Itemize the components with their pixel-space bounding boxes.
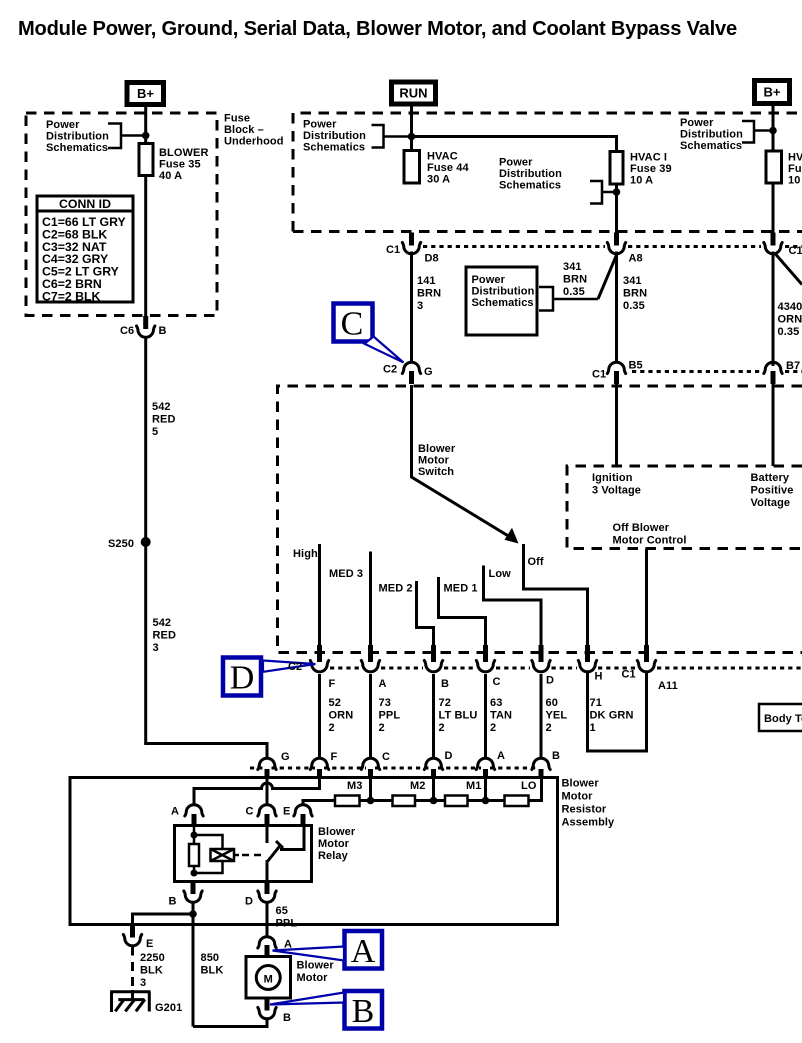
svg-text:BLOWER: BLOWER [159, 147, 208, 159]
svg-text:BRN: BRN [623, 288, 647, 300]
connector pin E (ground branch) [123, 926, 141, 946]
svg-text:B: B [169, 896, 177, 908]
svg-text:Fuse: Fuse [224, 113, 250, 125]
fuse HVAC right 10A [766, 151, 782, 233]
connector pin H (switch row) [578, 645, 596, 672]
svg-text:M1: M1 [466, 780, 481, 792]
CONN ID table [37, 196, 133, 303]
relay connector dome A [185, 805, 203, 826]
svg-text:B: B [283, 1012, 291, 1024]
svg-text:C1: C1 [789, 245, 802, 257]
label Power Distribution Schematics 3 [499, 157, 562, 192]
svg-text:Distribution: Distribution [472, 286, 535, 298]
bracket 3 [590, 181, 617, 204]
svg-text:MED 3: MED 3 [329, 568, 363, 580]
module dotted line row2 [632, 370, 802, 373]
svg-text:C2: C2 [383, 364, 397, 376]
svg-text:F: F [331, 751, 338, 763]
svg-text:E: E [146, 938, 153, 950]
label Blower Motor Switch [418, 443, 456, 478]
wire 850 BLK bottom [193, 1020, 267, 1027]
bracket 4 [742, 121, 773, 143]
wire B+ left to fuse [144, 107, 147, 144]
resistor M1 [445, 796, 468, 807]
motor M circle [256, 966, 280, 990]
svg-text:Power: Power [499, 157, 533, 169]
wire D stub to chain [432, 778, 435, 801]
svg-text:B: B [552, 750, 560, 762]
label HVAC I Fuse 39 10 A [630, 152, 672, 187]
wire B+ right down [772, 104, 775, 152]
svg-text:TAN: TAN [490, 710, 512, 722]
svg-text:ORN: ORN [778, 314, 802, 326]
label Blower Motor Resistor Assembly [562, 778, 616, 829]
label 72 LT BLU 2 [439, 697, 478, 734]
wire 72 LT BLU 2 [432, 674, 435, 758]
svg-text:A: A [351, 933, 376, 970]
svg-text:Blower: Blower [418, 443, 456, 455]
svg-text:Fuse: Fuse [788, 163, 802, 175]
svg-text:Relay: Relay [318, 850, 349, 862]
connector pin D (switch row) [532, 645, 550, 672]
svg-text:3: 3 [153, 642, 159, 654]
svg-text:71: 71 [590, 697, 602, 709]
svg-text:B+: B+ [764, 85, 781, 100]
svg-text:C: C [493, 676, 501, 688]
svg-text:10 A: 10 A [630, 175, 653, 187]
wire 71 DK GRN 1 (U path H to A11) [588, 673, 647, 751]
wire High [318, 544, 321, 645]
wire branch to ground E [133, 914, 194, 926]
fuse block underhood dashed box (left) [26, 113, 217, 316]
wire MED 3 [369, 552, 372, 646]
label 341 BRN 0.35 (second) [623, 275, 647, 312]
svg-text:2: 2 [490, 722, 496, 734]
connector C1 (right column) [764, 233, 782, 254]
svg-text:Distribution: Distribution [499, 168, 562, 180]
svg-text:Body To: Body To [764, 713, 802, 725]
label Off Blower Motor Control [613, 522, 687, 547]
junction dot chain D [430, 797, 438, 805]
svg-text:4340: 4340 [778, 301, 802, 313]
svg-text:Battery: Battery [751, 472, 790, 484]
wire relay D to motor A [266, 904, 269, 937]
svg-text:Schematics: Schematics [680, 140, 742, 152]
svg-text:C7=2 BLK: C7=2 BLK [42, 289, 101, 303]
connector pin D (resistor row) [424, 758, 442, 779]
wire B5 to control box [615, 383, 618, 466]
relay coil (box with X) [211, 849, 240, 861]
svg-text:Block –: Block – [224, 124, 264, 136]
label HVAC Fuse 44 30 A [427, 151, 469, 186]
svg-text:30 A: 30 A [427, 174, 450, 186]
svg-text:2: 2 [379, 722, 385, 734]
connector C2 pin F (switch row) [310, 645, 328, 672]
svg-text:Blower: Blower [562, 778, 600, 790]
junction dot relay B branch [189, 910, 197, 918]
fuse HVAC I Fuse 39 10A [610, 151, 623, 233]
wire E to resistor chain [303, 801, 336, 805]
svg-text:Motor: Motor [418, 455, 450, 467]
svg-text:Fuse 44: Fuse 44 [427, 162, 469, 174]
wire MED 2 [417, 581, 434, 645]
svg-text:C: C [246, 806, 254, 818]
wire 542 RED 5 [144, 339, 147, 744]
bracket 5 on PDS box [539, 287, 598, 311]
power symbol B+ (right) [755, 81, 790, 104]
svg-text:5: 5 [152, 426, 158, 438]
ground G201 [110, 990, 150, 1012]
fuse BLOWER Fuse 35 40A [139, 144, 153, 176]
svg-text:YEL: YEL [546, 710, 568, 722]
label Fuse Block - Underhood [224, 113, 284, 148]
svg-text:Off Blower: Off Blower [613, 522, 670, 534]
wire MED 1 [439, 577, 486, 645]
relay switch fixed contact [266, 826, 269, 844]
junction dot 3 [613, 188, 621, 196]
wire 52 ORN 2 [318, 674, 321, 758]
svg-text:M3: M3 [347, 780, 362, 792]
wire diagonal to A8 [598, 255, 617, 299]
svg-text:A11: A11 [658, 680, 678, 692]
svg-text:341: 341 [623, 275, 642, 287]
svg-text:BRN: BRN [417, 288, 441, 300]
blower motor relay box [175, 826, 312, 882]
svg-text:High: High [293, 548, 318, 560]
svg-text:DK GRN: DK GRN [590, 710, 634, 722]
junction dot 4 [769, 127, 777, 135]
connector pin A (resistor row) [476, 758, 494, 779]
box Power Distribution Schematics (solid) [466, 267, 537, 335]
label Power Distribution Schematics 1 [46, 119, 109, 154]
svg-text:D: D [445, 750, 453, 762]
relay connector dome C [258, 805, 276, 826]
svg-text:BLK: BLK [201, 965, 224, 977]
wire F to relay A (with hop) [194, 778, 320, 805]
resistor chain wire [337, 778, 542, 801]
svg-text:D: D [546, 675, 554, 687]
svg-text:BLK: BLK [140, 965, 163, 977]
relay switch common down [266, 860, 269, 882]
wire 60 YEL 2 [540, 674, 543, 758]
svg-text:Power: Power [303, 119, 337, 131]
svg-text:2: 2 [329, 722, 335, 734]
svg-text:Power: Power [680, 117, 714, 129]
svg-text:RED: RED [152, 414, 176, 426]
svg-text:Blower: Blower [318, 826, 356, 838]
callout box D [223, 658, 261, 697]
resistor row dotted line [250, 767, 537, 770]
label 850 BLK [201, 952, 224, 977]
label HVAC right fuse (clipped at edge) [788, 152, 802, 187]
svg-text:MED 1: MED 1 [444, 583, 478, 595]
connector pin F (resistor row) [310, 758, 328, 779]
svg-text:Fuse 35: Fuse 35 [159, 159, 201, 171]
label 2250 BLK 3 [140, 952, 165, 989]
svg-text:D: D [245, 896, 253, 908]
wire G to relay C [266, 778, 269, 805]
svg-text:B: B [352, 993, 375, 1030]
arrowhead switch [505, 528, 519, 544]
connector pin B7 [764, 362, 782, 384]
svg-text:Power: Power [46, 119, 80, 131]
svg-text:M2: M2 [410, 780, 425, 792]
svg-text:E: E [283, 806, 290, 818]
svg-text:Switch: Switch [418, 466, 454, 478]
callout B pointer [270, 993, 344, 1005]
label 52 ORN 2 [329, 697, 354, 734]
label 60 YEL 2 [546, 697, 568, 734]
svg-text:Blower: Blower [297, 960, 335, 972]
callout A pointer [273, 947, 345, 961]
fuse HVAC Fuse 44 30A [404, 150, 420, 184]
label Power Distribution Schematics 4 [680, 117, 743, 152]
relay switch arm [267, 841, 283, 862]
svg-text:RED: RED [153, 630, 177, 642]
svg-text:Voltage: Voltage [751, 497, 791, 509]
label 63 TAN 2 [490, 697, 512, 734]
power symbol RUN [392, 82, 436, 104]
svg-text:C1: C1 [386, 244, 400, 256]
svg-text:HVAC: HVAC [427, 151, 458, 163]
svg-text:G: G [281, 751, 290, 763]
svg-text:A: A [497, 750, 505, 762]
svg-text:Motor Control: Motor Control [613, 535, 687, 547]
wire C1 right column down [772, 252, 775, 367]
svg-text:Ignition: Ignition [592, 472, 633, 484]
svg-text:CONN ID: CONN ID [59, 197, 111, 211]
connector pin G (resistor row) [258, 758, 276, 779]
label 71 DK GRN 1 [590, 697, 634, 734]
svg-text:M: M [264, 974, 273, 986]
svg-text:HVAC: HVAC [788, 152, 802, 164]
connector pin B (resistor row) [532, 758, 550, 779]
label Power Distribution Schematics 2 [303, 119, 366, 154]
svg-text:Underhood: Underhood [224, 136, 284, 148]
svg-text:BRN: BRN [563, 274, 587, 286]
junction dot 1 [142, 132, 150, 140]
svg-text:0.35: 0.35 [563, 286, 585, 298]
svg-text:B+: B+ [137, 86, 154, 101]
svg-text:341: 341 [563, 261, 582, 273]
blower motor box [246, 957, 291, 999]
svg-text:3: 3 [140, 977, 146, 989]
svg-text:B: B [441, 678, 449, 690]
svg-text:Schematics: Schematics [472, 297, 534, 309]
svg-text:H: H [595, 671, 603, 683]
connector pin C (resistor row) [361, 758, 379, 779]
callout box B [345, 991, 383, 1030]
svg-text:Fuse 39: Fuse 39 [630, 163, 672, 175]
junction dot chain A [482, 797, 490, 805]
svg-text:A8: A8 [629, 253, 643, 265]
svg-text:PPL: PPL [276, 918, 298, 930]
junction dot 2 [408, 133, 416, 141]
bracket 2 [372, 125, 412, 148]
svg-text:C1: C1 [622, 669, 636, 681]
svg-text:A: A [379, 678, 387, 690]
wire control to A11 [645, 549, 648, 646]
label Blower Motor [297, 960, 335, 985]
svg-text:Distribution: Distribution [46, 131, 109, 143]
svg-text:G: G [424, 366, 433, 378]
svg-text:52: 52 [329, 697, 341, 709]
wire switch feed [412, 385, 513, 539]
svg-text:0.35: 0.35 [623, 300, 645, 312]
svg-text:Motor: Motor [318, 838, 350, 850]
relay coil branch wire [194, 826, 223, 874]
svg-text:40 A: 40 A [159, 170, 182, 182]
label 73 PPL 2 [379, 697, 401, 734]
wire fuse35 to C6 [144, 176, 147, 318]
connector pin A (switch row) [361, 645, 379, 672]
label Blower Motor Relay [318, 826, 356, 862]
junction dot relay bottom [191, 870, 198, 877]
svg-text:Distribution: Distribution [680, 129, 743, 141]
svg-text:10 A: 10 A [788, 175, 802, 187]
svg-text:542: 542 [152, 401, 171, 413]
label 542 RED 3 [153, 617, 177, 654]
label BLOWER Fuse 35 40 A [159, 147, 208, 182]
svg-text:2: 2 [546, 722, 552, 734]
svg-text:2250: 2250 [140, 952, 165, 964]
resistor M2 [393, 796, 416, 807]
splice S250 [141, 537, 151, 547]
callout D pointer [263, 661, 316, 672]
svg-text:RUN: RUN [399, 86, 427, 101]
connector C1 pin A11 [637, 645, 655, 672]
wire Off [524, 544, 588, 645]
resistor LO [505, 796, 529, 807]
label 65 PPL [276, 905, 298, 930]
svg-text:LT BLU: LT BLU [439, 710, 478, 722]
svg-text:ORN: ORN [329, 710, 354, 722]
bracket 1 [108, 124, 146, 149]
wire 63 TAN 2 [484, 674, 487, 758]
label 542 RED 5 [152, 401, 176, 438]
svg-text:HVAC I: HVAC I [630, 152, 667, 164]
junction dot relay top [191, 832, 198, 839]
junction dot chain C [367, 797, 375, 805]
svg-text:141: 141 [417, 275, 436, 287]
svg-text:0.35: 0.35 [778, 326, 800, 338]
connector C6 pin B (stub+cup) [137, 316, 155, 337]
svg-text:Distribution: Distribution [303, 130, 366, 142]
svg-text:Off: Off [528, 556, 544, 568]
label Battery Positive Voltage [751, 472, 794, 509]
control dashed box [567, 466, 802, 549]
motor pin B [258, 998, 276, 1019]
box Body To (clipped at edge) [759, 704, 802, 731]
wire RUN down [410, 104, 413, 151]
svg-text:72: 72 [439, 697, 451, 709]
svg-text:MED 2: MED 2 [379, 583, 413, 595]
wire C stub to chain [369, 778, 372, 801]
svg-text:Schematics: Schematics [499, 180, 561, 192]
wire B7 to control box [772, 383, 775, 466]
relay pin D [258, 882, 276, 903]
svg-text:C: C [382, 751, 390, 763]
wire relay B down [192, 904, 195, 1027]
svg-text:850: 850 [201, 952, 220, 964]
svg-text:Resistor: Resistor [562, 804, 607, 816]
connector C1 pin A8 [607, 233, 625, 254]
svg-text:Positive: Positive [751, 485, 794, 497]
svg-text:D: D [230, 660, 255, 697]
fuse block underhood dashed box (right, spans to page edge) [293, 113, 802, 232]
svg-text:542: 542 [153, 617, 172, 629]
svg-text:Module Power, Ground, Serial D: Module Power, Ground, Serial Data, Blowe… [18, 18, 737, 40]
svg-text:1: 1 [590, 722, 596, 734]
svg-text:Low: Low [489, 568, 512, 580]
HVAC module dashed box [278, 386, 802, 653]
relay connector dome E [294, 805, 312, 826]
wire 73 PPL 2 [369, 674, 372, 758]
wire elbow to resistor G [146, 742, 267, 758]
wire Low [484, 566, 542, 646]
svg-text:LO: LO [521, 780, 537, 792]
wire A stub to chain [484, 778, 487, 801]
motor connector dome A [258, 937, 276, 957]
svg-text:Motor: Motor [297, 972, 329, 984]
callout C pointer [365, 337, 404, 363]
svg-text:B7: B7 [786, 360, 800, 372]
relay pin B [184, 882, 202, 903]
module dotted line row1 [423, 245, 802, 248]
svg-text:Motor: Motor [562, 791, 594, 803]
svg-text:65: 65 [276, 905, 288, 917]
svg-text:B: B [159, 325, 167, 337]
svg-text:63: 63 [490, 697, 502, 709]
svg-text:C: C [341, 306, 364, 343]
connector C1 pin B5 [607, 362, 625, 384]
svg-text:3: 3 [417, 300, 423, 312]
svg-text:Schematics: Schematics [46, 142, 108, 154]
switch row dotted line [330, 667, 802, 670]
relay resistor (vertical) [189, 844, 199, 866]
label 4340 ORN 0.35 [778, 301, 802, 338]
blower motor resistor assembly box [70, 778, 558, 925]
wire diagonal off-page right [775, 254, 802, 285]
label Ignition 3 Voltage [592, 472, 641, 497]
svg-text:B5: B5 [629, 360, 643, 372]
relay switch output to E [280, 826, 304, 850]
resistor M3 [335, 796, 360, 807]
connector C2 pin G (dome+stub) [402, 362, 420, 384]
svg-text:G201: G201 [155, 1002, 182, 1014]
svg-text:D8: D8 [425, 253, 439, 265]
svg-text:2: 2 [439, 722, 445, 734]
connector pin C (switch row) [476, 645, 494, 672]
svg-text:3 Voltage: 3 Voltage [592, 485, 641, 497]
wire 2250 BLK 3 (dashed) [131, 947, 134, 991]
svg-text:73: 73 [379, 697, 391, 709]
relay linkage dashed [242, 854, 262, 857]
wire 341 BRN 0.35 vertical [615, 252, 618, 362]
svg-text:F: F [329, 678, 336, 690]
label 141 BRN 3 [417, 275, 441, 312]
callout box C [334, 304, 373, 343]
svg-text:Schematics: Schematics [303, 142, 365, 154]
wire run-branch to fuse 39 [412, 137, 617, 153]
svg-text:C2: C2 [288, 661, 302, 673]
svg-text:PPL: PPL [379, 710, 401, 722]
svg-text:60: 60 [546, 697, 558, 709]
label 341 BRN 0.35 (first) [563, 261, 587, 298]
svg-text:A: A [171, 806, 179, 818]
svg-text:C6: C6 [120, 325, 134, 337]
svg-text:Assembly: Assembly [562, 817, 616, 829]
